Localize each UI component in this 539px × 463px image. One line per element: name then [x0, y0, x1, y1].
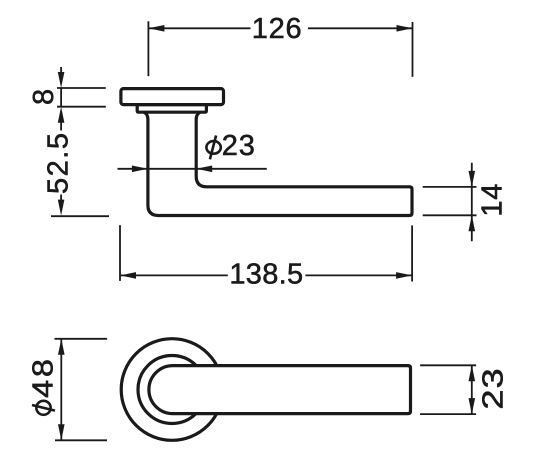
svg-text:14: 14: [476, 183, 508, 217]
svg-text:52.5: 52.5: [43, 132, 75, 194]
svg-text:23: 23: [222, 130, 256, 162]
svg-text:8: 8: [28, 89, 60, 105]
svg-text:48: 48: [26, 356, 59, 398]
svg-text:23: 23: [476, 367, 509, 409]
svg-text:138.5: 138.5: [229, 258, 303, 290]
svg-text:126: 126: [252, 13, 303, 45]
